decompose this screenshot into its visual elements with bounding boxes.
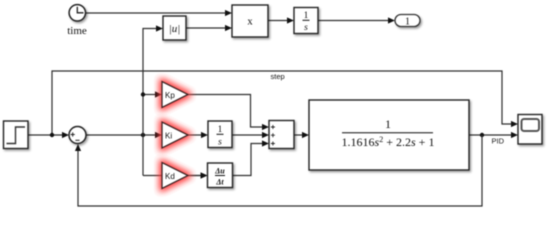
outport 1 bbox=[395, 15, 420, 28]
integrator block 1/s bbox=[294, 8, 318, 34]
wire Ki to integrator2 bbox=[188, 134, 202, 136]
svg-text:1: 1 bbox=[405, 17, 410, 28]
gain Kd bbox=[162, 163, 188, 189]
abs block |u| bbox=[163, 16, 186, 40]
transfer function plant bbox=[309, 100, 469, 170]
wire step branch to scope bbox=[52, 71, 512, 135]
wire to Kp bbox=[143, 94, 156, 96]
wire sum block to plant bbox=[294, 134, 303, 136]
wire derivative to sum block bbox=[233, 144, 264, 176]
wire abs to product bbox=[186, 27, 226, 29]
sum block (3 inputs) bbox=[269, 121, 294, 149]
svg-text:Δu: Δu bbox=[214, 167, 225, 176]
svg-text:Kd: Kd bbox=[165, 172, 175, 181]
scope block bbox=[518, 115, 542, 145]
wire error branch vertical bbox=[143, 29, 157, 176]
wire integrator2 to sum block bbox=[232, 134, 263, 136]
svg-text:Kp: Kp bbox=[165, 91, 175, 100]
wire Kp to sum block bbox=[188, 95, 263, 128]
svg-text:s: s bbox=[218, 138, 222, 148]
node error branch bbox=[141, 133, 145, 137]
wire step to sum bbox=[28, 134, 63, 136]
svg-text:Ki: Ki bbox=[165, 132, 172, 141]
sum junction bbox=[69, 127, 86, 144]
node step branch bbox=[50, 133, 54, 137]
wire integrator to outport bbox=[318, 20, 389, 22]
integrator block 1/s (Ki path) bbox=[208, 121, 232, 148]
derivative block du/dt bbox=[208, 163, 233, 188]
svg-text:time: time bbox=[67, 25, 87, 37]
wire clock to product bbox=[86, 12, 227, 14]
node Kp branch bbox=[141, 92, 145, 96]
wire feedback bbox=[78, 135, 482, 206]
svg-text:Δt: Δt bbox=[215, 178, 224, 187]
wire to Kd bbox=[143, 175, 202, 177]
gain Kp bbox=[162, 82, 188, 108]
node PID bbox=[480, 133, 484, 137]
svg-text:1: 1 bbox=[218, 125, 223, 135]
gain Ki bbox=[162, 122, 188, 148]
wire plant to scope bbox=[469, 134, 512, 136]
svg-text:|u|: |u| bbox=[169, 23, 181, 35]
step source block bbox=[4, 121, 29, 149]
wire sum to Ki bbox=[86, 134, 156, 136]
product block x bbox=[232, 5, 268, 37]
svg-text:PID: PID bbox=[492, 137, 505, 146]
svg-text:1: 1 bbox=[304, 11, 309, 21]
wire product to integrator bbox=[268, 20, 288, 22]
svg-text:1.1616s2 + 2.2s + 1: 1.1616s2 + 2.2s + 1 bbox=[342, 135, 435, 149]
svg-text:x: x bbox=[247, 17, 253, 28]
svg-text:s: s bbox=[304, 23, 308, 33]
svg-text:step: step bbox=[271, 72, 285, 81]
clock block bbox=[69, 5, 85, 21]
svg-text:1: 1 bbox=[385, 117, 391, 131]
wire Kd to derivative bbox=[188, 175, 202, 177]
